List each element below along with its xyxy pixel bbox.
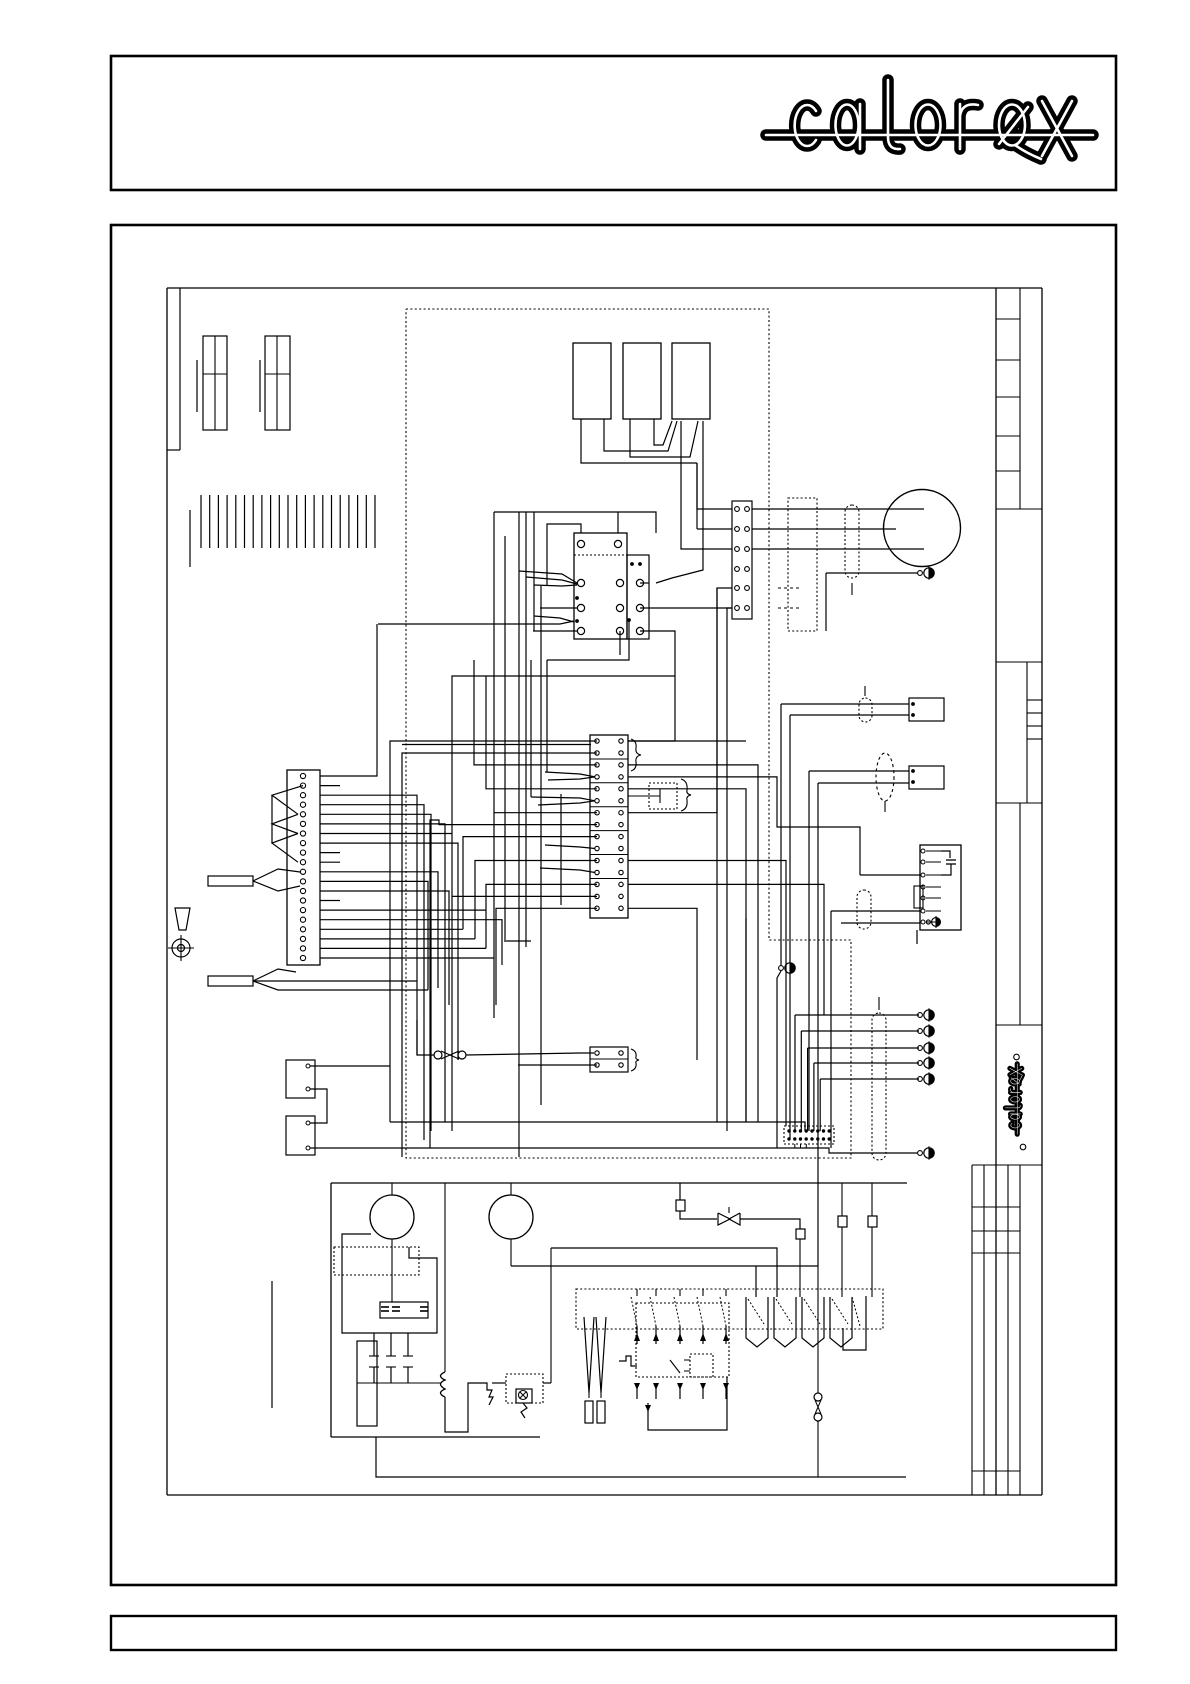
junction box J2 (286, 1116, 315, 1155)
relay out B (547, 620, 629, 660)
junction box wires (310, 1066, 918, 1153)
terminal block TB4 (590, 1047, 639, 1072)
bottom wire (376, 1437, 906, 1477)
aux dotted part (684, 1354, 713, 1377)
buzzer symbol (175, 908, 190, 930)
starter loop (342, 1234, 437, 1333)
band contacts (631, 1289, 729, 1344)
cable capsule (lower) (872, 997, 886, 1160)
footer box (111, 1616, 1116, 1650)
fan motor circle (884, 490, 961, 567)
plug lead P2 (208, 969, 428, 990)
sensor ellipse S2 (876, 753, 894, 812)
flow sensor bowtie (434, 1051, 466, 1059)
relay coil wire A (547, 524, 581, 585)
overload dotted box (788, 498, 817, 631)
circuit breaker Q2 (623, 343, 661, 419)
terminal rail comb (190, 495, 375, 567)
TB2 lower feeds (717, 588, 732, 1131)
relay input wires (378, 571, 577, 631)
run capacitor block (380, 1302, 428, 1318)
wire Q3 to relay (656, 421, 703, 583)
lamp out (543, 1382, 551, 1384)
TB3 staircase wires (320, 624, 531, 1140)
title block middle cells (996, 662, 1042, 803)
M1 down wire (391, 1239, 393, 1302)
sensor box B1 (909, 698, 944, 721)
relay loop wire (494, 512, 656, 533)
capsule tick (851, 583, 853, 595)
lamp zigzag (521, 1403, 527, 1418)
relay out C (619, 631, 621, 655)
bottom long wire (390, 1122, 805, 1131)
solenoid valve (718, 1207, 740, 1225)
pressostat HP (838, 1183, 847, 1297)
lamp (516, 1389, 532, 1403)
junction box J1 (286, 1060, 315, 1098)
circuit breaker Q1 (573, 343, 611, 419)
inner frame left edge (166, 288, 168, 1495)
spade pair (584, 1317, 606, 1423)
circuit breaker Q3 (672, 343, 710, 419)
title block revision rows (996, 288, 1042, 509)
relay out A (452, 631, 675, 1131)
wire Q3 to TB2 row3 (681, 421, 732, 549)
TB1 left wires (390, 660, 746, 1157)
title block lower table (972, 1165, 1042, 1495)
TB1 right wires (402, 588, 860, 1126)
inner frame margin strip (167, 288, 180, 450)
calorex logo (header) (766, 80, 1093, 159)
TB2 fan wires (752, 509, 924, 549)
mid verticals lower (519, 918, 746, 1157)
machine section top edge (331, 1182, 907, 1184)
motor protector (619, 1356, 637, 1366)
main drawing border box (111, 225, 1116, 1585)
fan motor M2 (489, 1183, 533, 1239)
contact bus (357, 1382, 441, 1384)
controller capsule (857, 890, 871, 929)
title block outer verticals (996, 288, 1042, 1495)
machine section left edge (330, 1183, 332, 1437)
flow switch FS (814, 1266, 822, 1477)
fan motor earth (826, 566, 934, 631)
earth boss symbol (168, 935, 194, 961)
panel earth (777, 961, 795, 1148)
wire y1266 (511, 1266, 818, 1297)
contact rack (357, 1341, 377, 1426)
lamp dotted box (506, 1374, 543, 1403)
sensor wires B1 (781, 704, 909, 965)
plug lead P1 (208, 869, 300, 891)
earth wires (795, 1015, 919, 1131)
wire run to TB2 row2 (697, 463, 732, 529)
contact dotted box (636, 1303, 729, 1377)
overload dashed stubs (778, 588, 800, 608)
right contact (843, 1296, 866, 1350)
breaker interconnect wires (581, 419, 698, 463)
vertical wire runs (494, 512, 561, 1105)
terminal strip TB1 (590, 735, 628, 918)
sensor wires B2 (809, 771, 909, 1266)
terminal strip TB2 (732, 501, 752, 619)
wire run to TB2 row1 (697, 463, 732, 509)
pressostat LP (868, 1183, 877, 1297)
inner frame bottom edge (167, 1494, 1042, 1496)
earth terminal low (918, 1146, 935, 1159)
chevron feed verticals (519, 512, 534, 585)
contact lower verticals (634, 1383, 729, 1399)
earth terminals (918, 1008, 935, 1085)
coil out wire (445, 1383, 481, 1432)
fuse-isolator F1 (197, 336, 227, 430)
coil L1 (441, 1183, 446, 1397)
control panel dotted outline (406, 309, 851, 1158)
TB3 link jumpers (272, 786, 303, 863)
wire x551 (550, 1248, 552, 1383)
TB4 wire (518, 1064, 597, 1066)
title block two-column section (996, 803, 1042, 1025)
sensor capsule S1 (859, 686, 872, 722)
valve to square (740, 1219, 805, 1297)
pressure switch PS (481, 1383, 506, 1405)
M2 wire (510, 1239, 512, 1266)
relay contact band (576, 1289, 883, 1329)
TB1 brace (631, 739, 641, 771)
aux switch blade (670, 1360, 680, 1373)
cable capsule (fan) (845, 505, 859, 578)
machine section bottom edge (331, 1436, 540, 1438)
controller wires (831, 875, 920, 1148)
DIN connector (784, 1126, 834, 1148)
header border box (111, 56, 1116, 190)
fuse-isolator F2 (260, 336, 290, 430)
inner frame top edge (167, 287, 1042, 289)
valve leg (676, 1183, 717, 1219)
compressor motor M1 (370, 1183, 414, 1239)
band curtains (746, 1297, 852, 1347)
contact return wire (645, 1377, 727, 1430)
relay aux jumper (640, 583, 732, 608)
bowtie wires (417, 1020, 594, 1055)
calorex logo (title block, rotated) (1005, 1054, 1025, 1150)
isolated wire segment (271, 1281, 273, 1408)
main contactor relay K (574, 533, 649, 639)
relay coil wire B (617, 512, 619, 533)
TB1 plug connector (628, 779, 691, 811)
contact trio (369, 1333, 413, 1383)
controller box (914, 845, 961, 930)
wire y1248 (551, 1248, 777, 1297)
starter dotted box (334, 1247, 419, 1275)
sensor box B2 (909, 766, 944, 789)
terminal strip TB3 (287, 770, 320, 965)
